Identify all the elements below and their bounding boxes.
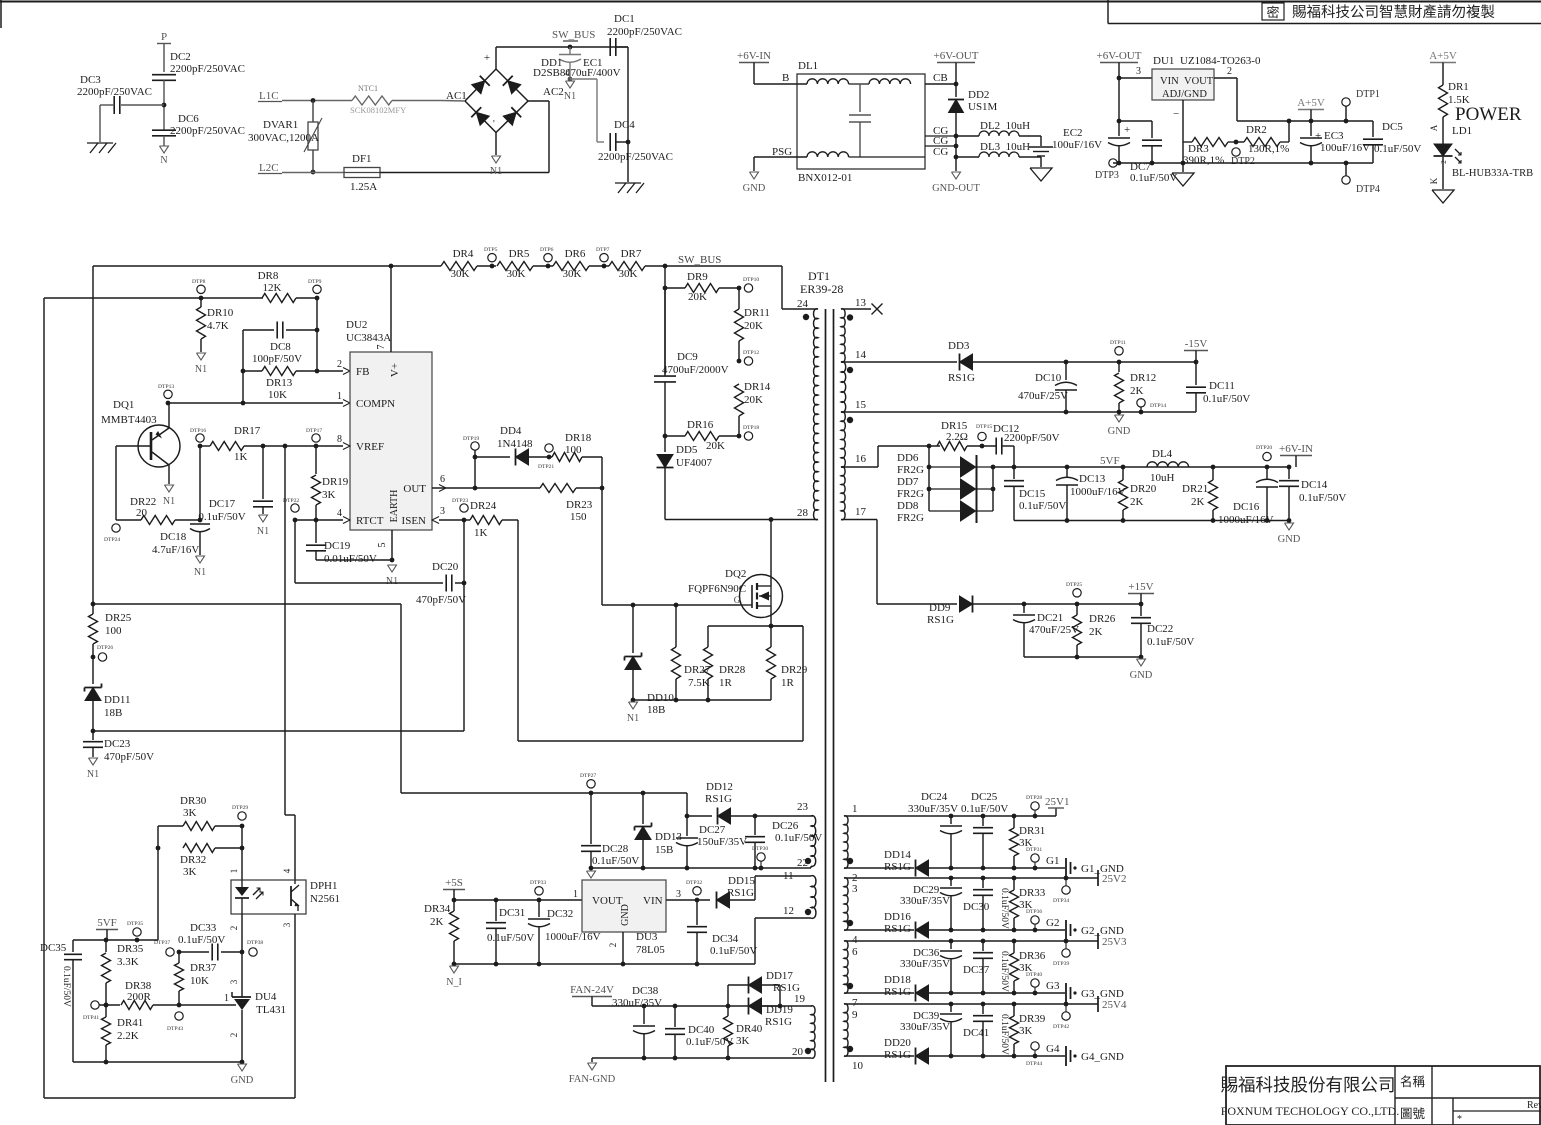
svg-text:28: 28 bbox=[797, 507, 809, 519]
rectifiers DD6 DD7 DD8 FR2G bbox=[928, 446, 930, 511]
svg-text:DD17: DD17 bbox=[766, 970, 793, 982]
wire DL2 to earth bars bbox=[1040, 136, 1042, 146]
electrolytic DC18 4.7uF bbox=[199, 446, 201, 522]
node N1 under DC18 bbox=[196, 556, 205, 563]
svg-text:DR1: DR1 bbox=[1448, 81, 1469, 93]
svg-text:DTP16: DTP16 bbox=[190, 428, 206, 434]
svg-text:MMBT4403: MMBT4403 bbox=[101, 414, 157, 426]
svg-text:DR3: DR3 bbox=[1188, 143, 1209, 155]
svg-text:N1: N1 bbox=[87, 769, 99, 780]
svg-text:DR18: DR18 bbox=[565, 432, 592, 444]
svg-text:8: 8 bbox=[337, 434, 342, 445]
svg-text:300VAC,1200A: 300VAC,1200A bbox=[248, 132, 319, 144]
capacitor DC30 bbox=[982, 878, 984, 888]
diode DD4 1N4148 bbox=[475, 456, 510, 458]
svg-text:7: 7 bbox=[376, 345, 387, 350]
svg-text:UC3843A: UC3843A bbox=[346, 332, 391, 344]
svg-text:DC2: DC2 bbox=[170, 51, 191, 63]
svg-text:DD12: DD12 bbox=[706, 781, 733, 793]
EARTH pin 5 bbox=[391, 530, 393, 560]
svg-text:12K: 12K bbox=[263, 282, 282, 294]
svg-text:3K: 3K bbox=[736, 1035, 750, 1047]
wire DR1 to LED bbox=[1442, 117, 1444, 144]
pin 12 wire bbox=[755, 917, 811, 919]
chassis triangle LED bbox=[1432, 190, 1454, 203]
secondary winding 9-10 bbox=[844, 1004, 848, 1057]
svg-text:3: 3 bbox=[676, 889, 681, 900]
svg-text:DTP40: DTP40 bbox=[1026, 972, 1042, 978]
resistor DR4 30K bbox=[441, 262, 477, 271]
zener DD10 18B bbox=[632, 605, 634, 653]
svg-text:DD15: DD15 bbox=[728, 875, 755, 887]
test point DTP31 bbox=[1031, 854, 1039, 862]
DC20 to DD11 row wire bbox=[463, 520, 465, 583]
svg-text:20K: 20K bbox=[744, 320, 763, 332]
svg-text:DTP43: DTP43 bbox=[167, 1026, 183, 1032]
svg-text:DC13: DC13 bbox=[1079, 473, 1106, 485]
svg-text:CB: CB bbox=[933, 72, 948, 84]
svg-text:VIN: VIN bbox=[643, 895, 663, 907]
svg-text:+: + bbox=[484, 52, 490, 64]
tap 25V4 bbox=[1097, 996, 1099, 1012]
svg-text:1: 1 bbox=[852, 803, 858, 815]
svg-text:DC34: DC34 bbox=[712, 933, 739, 945]
svg-text:DTP37: DTP37 bbox=[154, 940, 170, 946]
secondary winding 14-15 bbox=[841, 362, 846, 413]
svg-text:330uF/35V: 330uF/35V bbox=[900, 1021, 950, 1033]
svg-text:G4_GND: G4_GND bbox=[1081, 1051, 1124, 1063]
capacitor DC4 bbox=[609, 133, 611, 151]
svg-text:ER39-28: ER39-28 bbox=[800, 282, 843, 296]
wire DC3 to earth bbox=[100, 104, 114, 106]
capacitor DC33 row bbox=[179, 951, 209, 953]
svg-text:N: N bbox=[160, 155, 167, 166]
phase dot 13 bbox=[847, 314, 853, 320]
diode DD5 UF4007 bbox=[664, 436, 666, 452]
svg-text:AC2: AC2 bbox=[543, 86, 564, 98]
earth ground at DC4 bbox=[615, 182, 641, 184]
svg-text:20K: 20K bbox=[744, 394, 763, 406]
test point DTP43 bbox=[175, 1012, 183, 1020]
test point DTP12 bbox=[744, 357, 752, 365]
svg-text:DR11: DR11 bbox=[744, 307, 770, 319]
svg-text:DR14: DR14 bbox=[744, 381, 771, 393]
wire DR8 to FB node bbox=[316, 298, 318, 371]
wire fuse to bridge AC2 bbox=[380, 172, 549, 174]
svg-text:UF4007: UF4007 bbox=[676, 457, 713, 469]
svg-text:330uF/35V: 330uF/35V bbox=[908, 803, 958, 815]
test point DTP10 bbox=[744, 284, 752, 292]
wire DR30 node to opto anode bbox=[241, 826, 243, 880]
svg-text:DC28: DC28 bbox=[602, 843, 629, 855]
node GND under PSG bbox=[750, 172, 759, 179]
resistor DR5 30K bbox=[477, 265, 496, 267]
svg-text:DC6: DC6 bbox=[178, 113, 199, 125]
svg-text:DTP44: DTP44 bbox=[1026, 1061, 1042, 1067]
diode DD15 RS1G bbox=[717, 892, 730, 908]
phase dot 7 bbox=[847, 983, 853, 989]
svg-text:DTP25: DTP25 bbox=[1066, 582, 1082, 588]
svg-text:DT1: DT1 bbox=[808, 269, 830, 283]
svg-text:25V1: 25V1 bbox=[1045, 796, 1069, 808]
connector G2_GND bbox=[1065, 920, 1067, 940]
test point DTP40 bbox=[1031, 979, 1039, 987]
resistor DR39 3K bbox=[1013, 1004, 1015, 1016]
svg-text:3: 3 bbox=[440, 506, 445, 517]
svg-text:DC26: DC26 bbox=[772, 820, 799, 832]
svg-text:DD9: DD9 bbox=[929, 602, 951, 614]
svg-text:2200pF/50V: 2200pF/50V bbox=[1004, 432, 1060, 444]
svg-text:23: 23 bbox=[797, 801, 809, 813]
wire 5VF corner up to DR32 bbox=[157, 848, 159, 940]
svg-text:30K: 30K bbox=[619, 268, 638, 280]
resistor DR13 10K bbox=[243, 370, 262, 372]
wire bridge plus to SW_BUS rail bbox=[495, 47, 497, 69]
svg-text:POWER: POWER bbox=[1455, 104, 1522, 125]
ground at ADJ bbox=[1182, 163, 1184, 172]
svg-text:DR23: DR23 bbox=[566, 499, 593, 511]
electrolytic DC10 470uF bbox=[1065, 362, 1067, 380]
test point DTP25 bbox=[1073, 589, 1081, 597]
capacitor DC26 bbox=[754, 816, 756, 835]
svg-text:DU3: DU3 bbox=[636, 931, 658, 943]
svg-text:VIN: VIN bbox=[1160, 76, 1179, 87]
DQ1 base wire bbox=[116, 445, 151, 447]
svg-text:+6V-IN: +6V-IN bbox=[737, 50, 771, 62]
svg-text:DR40: DR40 bbox=[736, 1023, 763, 1035]
test point DTP28 bbox=[1031, 802, 1039, 810]
test point DTP19 bbox=[471, 442, 479, 450]
svg-text:DR26: DR26 bbox=[1089, 613, 1116, 625]
test point DTP41 bbox=[91, 1001, 99, 1009]
svg-text:DTP29: DTP29 bbox=[232, 805, 248, 811]
test point DTP1 bbox=[1342, 98, 1350, 106]
pin 14 rail bbox=[841, 361, 957, 363]
node N1 under EC1 bbox=[566, 81, 575, 88]
resistor DR19 3K bbox=[315, 446, 317, 474]
svg-text:N2561: N2561 bbox=[310, 893, 340, 905]
wire SW_BUS to primary pin 24 bbox=[781, 266, 783, 309]
electrolytic DC29 330uF bbox=[950, 878, 952, 886]
svg-text:DTP35: DTP35 bbox=[127, 921, 143, 927]
svg-text:9: 9 bbox=[852, 1009, 858, 1021]
capacitor DC27 150uF bbox=[686, 816, 688, 836]
svg-text:DR25: DR25 bbox=[105, 612, 132, 624]
svg-text:N1: N1 bbox=[257, 526, 269, 537]
svg-text:DR20: DR20 bbox=[1130, 483, 1157, 495]
svg-text:5: 5 bbox=[377, 543, 388, 548]
svg-text:DR29: DR29 bbox=[781, 664, 808, 676]
ISEN pin 3 wire bbox=[432, 517, 439, 524]
svg-text:TL431: TL431 bbox=[256, 1004, 286, 1016]
svg-text:0.1uF/50V: 0.1uF/50V bbox=[999, 888, 1009, 929]
svg-text:DTP9: DTP9 bbox=[308, 279, 322, 285]
svg-text:DR4: DR4 bbox=[453, 248, 474, 260]
+15V bottom rail bbox=[1024, 656, 1141, 658]
feedback gnd rail bbox=[73, 1061, 242, 1063]
svg-text:14: 14 bbox=[855, 349, 867, 361]
V+ branch junction bbox=[91, 602, 96, 607]
electrolytic DC13 1000uF bbox=[1066, 467, 1068, 477]
svg-text:3: 3 bbox=[852, 883, 858, 895]
svg-text:DC40: DC40 bbox=[688, 1024, 715, 1036]
svg-text:2.2K: 2.2K bbox=[117, 1030, 139, 1042]
secondary 5V bottom rail bbox=[1014, 520, 1289, 522]
DQ2 drain wire bbox=[770, 520, 772, 587]
svg-text:2K: 2K bbox=[1191, 496, 1205, 508]
node N1 under EARTH bbox=[388, 565, 397, 572]
svg-text:DR10: DR10 bbox=[207, 307, 234, 319]
svg-text:15B: 15B bbox=[655, 844, 673, 856]
svg-text:N1: N1 bbox=[195, 364, 207, 375]
svg-text:DR34: DR34 bbox=[424, 903, 451, 915]
svg-text:3K: 3K bbox=[183, 866, 197, 878]
resistor DR15 2.2 bbox=[937, 442, 967, 451]
svg-text:DTP39: DTP39 bbox=[1053, 961, 1069, 967]
svg-text:DR33: DR33 bbox=[1019, 887, 1046, 899]
pin 15 rail bbox=[841, 411, 1196, 413]
svg-text:6: 6 bbox=[852, 946, 858, 958]
svg-text:L2C: L2C bbox=[259, 162, 279, 174]
svg-text:N_I: N_I bbox=[446, 977, 462, 988]
svg-text:DC41: DC41 bbox=[963, 1027, 989, 1039]
svg-text:DR35: DR35 bbox=[117, 943, 144, 955]
svg-text:1: 1 bbox=[224, 993, 229, 1004]
electrolytic DC16 1000uF bbox=[1266, 467, 1268, 479]
svg-text:150: 150 bbox=[570, 511, 587, 523]
svg-text:DC10: DC10 bbox=[1035, 372, 1062, 384]
svg-text:DR27: DR27 bbox=[684, 664, 711, 676]
feedback bottom wire bbox=[44, 1097, 295, 1099]
svg-text:DR6: DR6 bbox=[565, 248, 586, 260]
zener DD13 15B bbox=[642, 793, 644, 824]
test point DTP33 bbox=[535, 887, 543, 895]
svg-text:DD20: DD20 bbox=[884, 1037, 911, 1049]
svg-text:100pF/50V: 100pF/50V bbox=[252, 353, 302, 365]
svg-text:DC9: DC9 bbox=[677, 351, 698, 363]
svg-text:N1: N1 bbox=[490, 166, 502, 177]
svg-text:DD10: DD10 bbox=[647, 692, 674, 704]
test point DTP44 bbox=[1031, 1042, 1039, 1050]
svg-text:A+5V: A+5V bbox=[1297, 97, 1325, 109]
gate drive row bbox=[602, 604, 740, 606]
svg-text:DC38: DC38 bbox=[632, 985, 659, 997]
bridge rectifier DD1 D2SB80 bbox=[465, 69, 528, 133]
svg-text:100uF/16V: 100uF/16V bbox=[1052, 139, 1102, 151]
svg-text:DTP11: DTP11 bbox=[1110, 340, 1126, 346]
secondary winding 13-14 bbox=[841, 309, 845, 363]
svg-text:0.1uF/50V: 0.1uF/50V bbox=[592, 855, 639, 867]
node N bbox=[160, 146, 169, 153]
svg-text:DD4: DD4 bbox=[500, 425, 522, 437]
test point DTP21 bbox=[545, 444, 553, 452]
secondary winding 3-4 bbox=[844, 878, 848, 931]
svg-text:DTP15: DTP15 bbox=[976, 424, 992, 430]
svg-text:DC20: DC20 bbox=[432, 561, 459, 573]
svg-text:DQ1: DQ1 bbox=[113, 399, 134, 411]
svg-text:FAN-24V: FAN-24V bbox=[570, 984, 614, 996]
svg-text:DTP42: DTP42 bbox=[1053, 1024, 1069, 1030]
svg-text:DTP38: DTP38 bbox=[247, 940, 263, 946]
filter DL1 BNX012-01 box bbox=[797, 74, 925, 169]
svg-text:DR12: DR12 bbox=[1130, 372, 1156, 384]
svg-text:DTP2: DTP2 bbox=[1231, 156, 1255, 167]
svg-text:VREF: VREF bbox=[356, 441, 384, 453]
capacitor DC1 bbox=[609, 38, 611, 56]
wire DC1 right down to DC4 bbox=[616, 46, 628, 48]
resistor DR18 100 bbox=[552, 453, 582, 462]
capacitor DC9 4700uF bbox=[664, 288, 666, 374]
svg-text:25V4: 25V4 bbox=[1102, 999, 1127, 1011]
svg-text:DTP20: DTP20 bbox=[1256, 445, 1272, 451]
test point DTP7 bbox=[602, 264, 607, 269]
resistor DR2 130R bbox=[1236, 141, 1244, 143]
svg-text:330uF/35V: 330uF/35V bbox=[612, 997, 662, 1009]
capacitor DC23 470pF bbox=[92, 731, 94, 740]
opto emitter wire bbox=[294, 914, 296, 1098]
svg-text:DR31: DR31 bbox=[1019, 825, 1045, 837]
electrolytic DC36 330uF bbox=[950, 941, 952, 949]
svg-text:DC3: DC3 bbox=[80, 74, 101, 86]
capacitor DC40 bbox=[674, 1006, 676, 1027]
resistor DR40 3K bbox=[727, 1006, 729, 1016]
svg-text:DL1: DL1 bbox=[798, 60, 818, 72]
wire EC1 to N1 bbox=[569, 63, 571, 80]
svg-text:2K: 2K bbox=[1130, 385, 1144, 397]
thermistor NTC1 bbox=[352, 96, 392, 105]
fuse DF1 bbox=[344, 168, 380, 178]
svg-text:DTP24: DTP24 bbox=[104, 537, 120, 543]
svg-text:DD14: DD14 bbox=[884, 849, 911, 861]
svg-text:470pF/50V: 470pF/50V bbox=[104, 751, 154, 763]
wire CB to +6V-OUT node bbox=[925, 83, 956, 85]
resistor DR30 3K bbox=[158, 825, 183, 827]
svg-text:RS1G: RS1G bbox=[705, 793, 732, 805]
svg-text:390R,1%: 390R,1% bbox=[1183, 155, 1224, 167]
svg-text:EC3: EC3 bbox=[1324, 130, 1344, 142]
svg-text:DC32: DC32 bbox=[547, 908, 573, 920]
wire V+ to aux supply bbox=[93, 603, 401, 605]
svg-text:1R: 1R bbox=[781, 677, 795, 689]
wire L2C to fuse bbox=[282, 172, 344, 174]
svg-text:25V3: 25V3 bbox=[1102, 936, 1127, 948]
wire FB row left bbox=[44, 297, 263, 299]
ADJ pin wire bbox=[1182, 100, 1184, 163]
svg-text:+6V-IN: +6V-IN bbox=[1279, 443, 1313, 455]
secret stamp box bbox=[1262, 3, 1284, 20]
capacitor DC19 0.01uF bbox=[315, 520, 317, 543]
svg-text:0.1uF/50V: 0.1uF/50V bbox=[1203, 393, 1250, 405]
svg-text:UZ1084-TO263-0: UZ1084-TO263-0 bbox=[1180, 55, 1261, 67]
node N1 under DC23 bbox=[89, 758, 98, 765]
svg-text:DD2: DD2 bbox=[968, 89, 989, 101]
test point DTP37 bbox=[166, 948, 174, 956]
primary bottom rail bbox=[665, 519, 818, 521]
electrolytic EC2 bbox=[1117, 119, 1122, 124]
svg-text:DTP5: DTP5 bbox=[484, 247, 498, 253]
svg-text:3.3K: 3.3K bbox=[117, 956, 139, 968]
svg-text:SCK08102MFY: SCK08102MFY bbox=[350, 105, 406, 115]
node FAN-GND bbox=[588, 1063, 597, 1070]
capacitor DC41 bbox=[982, 1004, 984, 1014]
svg-text:NTC1: NTC1 bbox=[358, 84, 378, 93]
svg-text:DC16: DC16 bbox=[1233, 501, 1260, 513]
DQ2 source wire bbox=[770, 606, 772, 626]
test point DTP34 bbox=[1062, 886, 1070, 894]
node N1 under DR10 bbox=[197, 353, 206, 360]
svg-text:3K: 3K bbox=[183, 807, 197, 819]
svg-text:1000uF/16V: 1000uF/16V bbox=[1070, 486, 1126, 498]
svg-text:DTP27: DTP27 bbox=[580, 773, 596, 779]
wire LED to chassis bbox=[1442, 157, 1444, 189]
svg-text:DC17: DC17 bbox=[209, 498, 236, 510]
connector G1_GND bbox=[1065, 858, 1067, 878]
svg-text:G2: G2 bbox=[1046, 917, 1059, 929]
DQ1 emitter to N1 bbox=[168, 465, 170, 484]
wire DC4 to earth bbox=[627, 142, 629, 182]
left outer feedback wire bbox=[43, 298, 45, 1098]
optocoupler DPH1 N2561 bbox=[231, 880, 306, 914]
secondary winding 15-16 bbox=[841, 412, 845, 468]
capacitor DC6 bbox=[152, 129, 176, 131]
resistor DR25 100 bbox=[92, 604, 94, 614]
svg-text:24: 24 bbox=[797, 298, 809, 310]
svg-text:G4: G4 bbox=[1046, 1043, 1060, 1055]
resistor DR37 10K bbox=[178, 952, 180, 963]
svg-text:DR7: DR7 bbox=[621, 248, 642, 260]
test point DTP14 bbox=[1137, 399, 1145, 407]
svg-text:DTP18: DTP18 bbox=[743, 425, 759, 431]
FAN rail bbox=[592, 1005, 812, 1007]
node GND under DC14 bbox=[1285, 523, 1294, 530]
svg-text:150uF/35V: 150uF/35V bbox=[697, 836, 747, 848]
resistor DR21 2K bbox=[1212, 467, 1214, 480]
svg-text:0.1uF/50V: 0.1uF/50V bbox=[1374, 143, 1421, 155]
secondary winding 1-2 bbox=[844, 816, 848, 869]
svg-text:RS1G: RS1G bbox=[884, 986, 911, 998]
svg-text:20: 20 bbox=[792, 1046, 804, 1058]
resistor DR12 2K bbox=[1118, 362, 1120, 372]
5VF rail bbox=[993, 466, 1289, 468]
resistor DR28 1R bbox=[707, 626, 709, 647]
DU3 bottom rail bbox=[454, 963, 755, 965]
svg-text:1: 1 bbox=[573, 889, 578, 900]
RTCT branch down to DC20 row bbox=[294, 520, 296, 583]
svg-text:DR41: DR41 bbox=[117, 1017, 143, 1029]
svg-text:DL2 10uH: DL2 10uH bbox=[980, 120, 1030, 132]
svg-text:DC33: DC33 bbox=[190, 922, 217, 934]
DL1 inductor bottom bbox=[807, 152, 849, 157]
test point DTP9 bbox=[313, 285, 321, 293]
DU4 cathode anode wires bbox=[241, 996, 243, 998]
sense bottom rail to N1 bbox=[633, 699, 771, 701]
phase dot 15 bbox=[847, 417, 853, 423]
svg-text:DC21: DC21 bbox=[1037, 612, 1063, 624]
svg-text:2: 2 bbox=[229, 926, 239, 931]
svg-text:2: 2 bbox=[337, 359, 342, 370]
svg-text:DR30: DR30 bbox=[180, 795, 207, 807]
wire AC1 bbox=[441, 100, 465, 103]
svg-text:DTP14: DTP14 bbox=[1150, 403, 1166, 409]
svg-text:FR2G: FR2G bbox=[897, 464, 924, 476]
diode DD2 US1M bbox=[955, 84, 957, 97]
phase dot 14 bbox=[847, 367, 853, 373]
svg-text:DU4: DU4 bbox=[255, 991, 277, 1003]
node N1 sense bbox=[629, 702, 638, 709]
resistor DR8 12K bbox=[262, 294, 296, 303]
aux supply wire bbox=[591, 792, 687, 794]
resistor DR14 20K bbox=[735, 384, 744, 416]
